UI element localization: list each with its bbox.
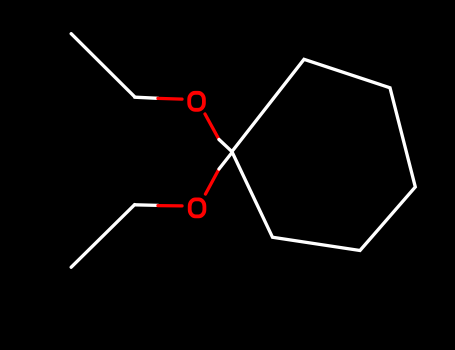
top O to C2 red half (205, 114, 219, 140)
bottom arm diagonal (71, 205, 135, 268)
top arm diagonal (71, 34, 135, 97)
top O to C2 white half (219, 140, 232, 152)
bottom arm horizontal white half (135, 203, 158, 207)
bottom arm horizontal red half (158, 204, 182, 208)
hexagon (232, 59, 415, 250)
top arm horizontal white half (135, 97, 158, 98)
bottom O glyph (190, 199, 205, 216)
bottom O to C2 white half (219, 153, 232, 169)
bottom O to C2 red half (206, 169, 220, 194)
top O glyph (189, 93, 204, 110)
top arm horizontal red half (158, 97, 182, 101)
